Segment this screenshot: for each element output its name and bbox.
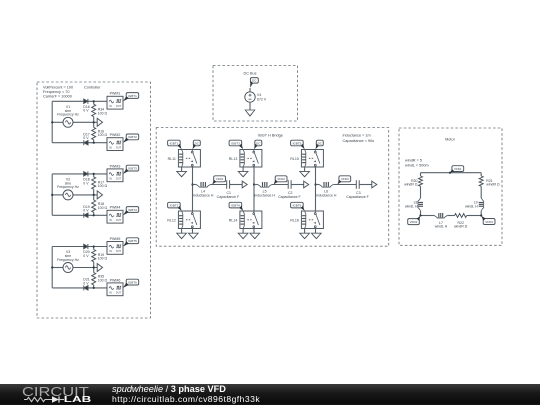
svg-text:OUT: OUT — [116, 219, 122, 222]
svg-text:Capacitance F: Capacitance F — [346, 195, 369, 199]
svg-text:IGBT1: IGBT1 — [128, 94, 137, 98]
svg-text:IGBT4: IGBT4 — [231, 203, 240, 207]
svg-text:windR = 5: windR = 5 — [405, 159, 422, 163]
svg-text:100 Ω: 100 Ω — [98, 206, 108, 210]
svg-text:Capacitance F: Capacitance F — [217, 195, 240, 199]
svg-text:672 V: 672 V — [257, 98, 267, 102]
svg-text:100 Ω: 100 Ω — [98, 184, 108, 188]
svg-text:VoltPercent = 100: VoltPercent = 100 — [43, 86, 73, 90]
svg-text:PWM2: PWM2 — [110, 133, 121, 137]
svg-text:IGBT6: IGBT6 — [293, 203, 302, 207]
svg-text:windR Ω: windR Ω — [404, 183, 418, 187]
svg-text:Inductance H: Inductance H — [193, 194, 214, 198]
svg-text:RL15: RL15 — [290, 157, 299, 161]
svg-text:IN: IN — [109, 219, 112, 222]
svg-text:IBGT H Bridge: IBGT H Bridge — [258, 134, 283, 138]
svg-text:VFD3: VFD3 — [341, 177, 349, 181]
svg-text:Frequency Hz: Frequency Hz — [57, 113, 79, 117]
svg-text:IGBT3: IGBT3 — [128, 166, 137, 170]
svg-text:IGBT3: IGBT3 — [231, 141, 240, 145]
svg-text:OUT: OUT — [116, 250, 122, 253]
svg-text:RL14: RL14 — [229, 219, 238, 223]
svg-text:RL11: RL11 — [168, 157, 176, 161]
svg-text:Capacitance = 90u: Capacitance = 90u — [343, 139, 375, 143]
svg-text:IGBT5: IGBT5 — [293, 141, 302, 145]
svg-text:0 V: 0 V — [83, 209, 89, 213]
svg-text:Inductance = 1m: Inductance = 1m — [343, 134, 371, 138]
svg-text:windL H: windL H — [435, 225, 448, 229]
svg-text:VFD1: VFD1 — [454, 167, 462, 171]
svg-text:100 Ω: 100 Ω — [98, 133, 108, 137]
svg-text:IGBT6: IGBT6 — [128, 280, 137, 284]
svg-text:100 Ω: 100 Ω — [98, 112, 108, 116]
svg-text:OUT: OUT — [116, 105, 122, 108]
svg-text:IN: IN — [109, 146, 112, 149]
svg-text:0 V: 0 V — [83, 181, 89, 185]
svg-text:IN: IN — [109, 105, 112, 108]
svg-text:Frequency Hz: Frequency Hz — [57, 185, 79, 189]
svg-text:Frequency Hz: Frequency Hz — [57, 258, 79, 262]
svg-text:IN: IN — [109, 178, 112, 181]
svg-text:IGBT2: IGBT2 — [170, 203, 179, 207]
svg-text:Inductance H: Inductance H — [316, 194, 337, 198]
svg-text:PWM6: PWM6 — [110, 278, 121, 282]
svg-text:CarrierF = 10000: CarrierF = 10000 — [43, 95, 72, 99]
svg-text:IGBT4: IGBT4 — [128, 208, 137, 212]
svg-text:PWM3: PWM3 — [110, 164, 121, 168]
svg-text:IGBT2: IGBT2 — [128, 135, 137, 139]
svg-text:windL H: windL H — [405, 204, 418, 208]
svg-text:Inductance H: Inductance H — [254, 194, 275, 198]
svg-text:RL16: RL16 — [290, 219, 299, 223]
svg-text:Motor: Motor — [445, 138, 455, 142]
svg-text:DC Bus: DC Bus — [243, 71, 256, 75]
svg-text:VFD3: VFD3 — [485, 220, 493, 224]
svg-text:PWM4: PWM4 — [110, 206, 121, 210]
svg-text:IN: IN — [109, 292, 112, 295]
svg-text:VFD2: VFD2 — [277, 177, 285, 181]
svg-text:VFD2: VFD2 — [410, 220, 418, 224]
svg-text:0 V: 0 V — [83, 281, 89, 285]
svg-text:RL12: RL12 — [167, 219, 176, 223]
svg-text:0 V: 0 V — [83, 136, 89, 140]
svg-text:VFD1: VFD1 — [216, 177, 224, 181]
svg-text:OUT: OUT — [116, 146, 122, 149]
svg-text:IGBT1: IGBT1 — [170, 141, 179, 145]
svg-text:OUT: OUT — [116, 292, 122, 295]
svg-text:Frequency = 70: Frequency = 70 — [43, 90, 70, 94]
svg-text:Capacitance F: Capacitance F — [278, 195, 301, 199]
svg-text:IN: IN — [109, 250, 112, 253]
svg-text:0 V: 0 V — [83, 254, 89, 258]
svg-text:RL13: RL13 — [229, 157, 238, 161]
svg-text:windR Ω: windR Ω — [454, 225, 468, 229]
svg-text:windL H: windL H — [465, 204, 478, 208]
svg-text:IGBT5: IGBT5 — [128, 239, 137, 243]
svg-text:PWM5: PWM5 — [110, 237, 121, 241]
svg-text:Controller: Controller — [84, 86, 101, 90]
svg-text:windL = 500m: windL = 500m — [405, 164, 429, 168]
svg-text:LAB: LAB — [64, 395, 92, 404]
svg-text:OUT: OUT — [116, 178, 122, 181]
svg-text:PWM1: PWM1 — [110, 92, 121, 96]
svg-text:100 Ω: 100 Ω — [98, 257, 108, 261]
svg-text:windR Ω: windR Ω — [486, 183, 500, 187]
svg-text:100 Ω: 100 Ω — [98, 278, 108, 282]
svg-text:0 V: 0 V — [83, 109, 89, 113]
svg-text:V4: V4 — [257, 93, 261, 97]
